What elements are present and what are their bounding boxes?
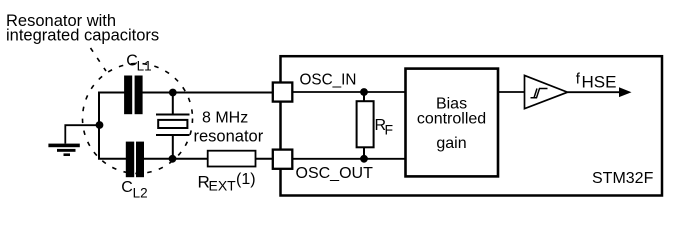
svg-text:controlled: controlled — [417, 110, 486, 127]
svg-text:F: F — [385, 121, 394, 137]
svg-text:(1): (1) — [236, 171, 256, 188]
svg-text:OSC_IN: OSC_IN — [300, 72, 357, 89]
svg-text:L1: L1 — [137, 59, 152, 74]
svg-text:integrated capacitors: integrated capacitors — [6, 26, 159, 44]
svg-text:f: f — [576, 70, 581, 87]
svg-text:gain: gain — [436, 135, 466, 152]
svg-text:resonator: resonator — [194, 127, 264, 145]
svg-text:EXT: EXT — [209, 178, 237, 194]
svg-text:STM32F: STM32F — [592, 170, 654, 187]
svg-text:8 MHz: 8 MHz — [202, 109, 248, 126]
svg-text:L2: L2 — [133, 185, 148, 200]
svg-text:C: C — [121, 179, 133, 196]
svg-text:OSC_OUT: OSC_OUT — [296, 165, 374, 182]
svg-text:HSE: HSE — [582, 73, 617, 92]
